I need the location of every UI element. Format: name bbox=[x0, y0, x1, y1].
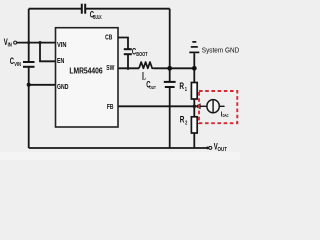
wire inductor to R1 node bbox=[154, 67, 196, 69]
terminal VOUT bbox=[209, 146, 212, 149]
wire GND pin bbox=[29, 84, 56, 86]
label VOUT terminal bbox=[214, 141, 227, 153]
svg-text:GND: GND bbox=[57, 84, 69, 92]
svg-text:CB: CB bbox=[105, 35, 113, 42]
ground System GND bbox=[189, 42, 199, 53]
wire EN branch bbox=[40, 43, 56, 62]
wire bottom rail bbox=[29, 147, 209, 149]
wire CVIN branch lower to bottom rail bbox=[28, 67, 30, 148]
wire COUT branch lower to bottom rail bbox=[169, 88, 171, 148]
label IDAC bbox=[221, 111, 229, 119]
wire R2 bottom lead bbox=[193, 133, 195, 148]
label CVIN bbox=[10, 56, 21, 67]
svg-text:R: R bbox=[179, 81, 184, 91]
node VIN/CVIN junction bbox=[27, 41, 30, 44]
capacitor CBULK bbox=[82, 4, 85, 14]
wire SW to inductor bbox=[118, 67, 139, 69]
capacitor CVIN bbox=[23, 62, 35, 67]
wire CBOOT to SW bbox=[127, 55, 129, 69]
svg-text:OUT: OUT bbox=[149, 84, 156, 90]
wire COUT branch upper bbox=[169, 68, 171, 81]
label R1 bbox=[179, 81, 187, 92]
resistor R2 bbox=[191, 117, 197, 133]
current source IDAC bbox=[195, 100, 225, 113]
svg-text:BULK: BULK bbox=[93, 14, 101, 20]
wire left vertical top rail to VIN wire bbox=[28, 9, 30, 43]
wire R2 top lead bbox=[193, 106, 195, 117]
terminal VIN bbox=[14, 41, 17, 44]
label CBOOT bbox=[132, 46, 148, 57]
label CBULK bbox=[90, 9, 102, 20]
svg-text:EN: EN bbox=[57, 58, 65, 66]
svg-text:System GND: System GND bbox=[202, 47, 240, 54]
node VOUT rail dot bbox=[206, 147, 209, 150]
svg-text:VIN: VIN bbox=[57, 42, 67, 50]
svg-text:FB: FB bbox=[107, 105, 114, 112]
wire top rail right bbox=[85, 8, 169, 10]
wire R1 bottom lead bbox=[193, 99, 195, 106]
label VIN terminal bbox=[4, 37, 13, 48]
svg-text:R: R bbox=[180, 115, 185, 125]
node R1/system-gnd junction bbox=[192, 66, 197, 71]
wire CB to CBOOT bbox=[118, 38, 128, 49]
svg-text:LMR54406: LMR54406 bbox=[69, 66, 102, 76]
svg-text:OUT: OUT bbox=[218, 147, 228, 153]
wire system gnd stub bbox=[193, 53, 195, 68]
node CBOOT/SW junction bbox=[126, 67, 129, 70]
resistor R1 bbox=[191, 83, 197, 100]
node VIN/EN junction bbox=[38, 41, 41, 44]
label COUT bbox=[146, 79, 156, 90]
wire R1 top lead bbox=[193, 68, 195, 82]
wire right vertical from top rail to SW node bbox=[169, 9, 171, 69]
wire VIN input bbox=[17, 42, 56, 44]
node GND junction bbox=[27, 83, 31, 87]
capacitor COUT bbox=[164, 82, 176, 87]
capacitor CBOOT bbox=[124, 49, 132, 54]
svg-text:BOOT: BOOT bbox=[136, 52, 147, 58]
node FB junction bbox=[193, 105, 197, 109]
red dashed highlight box bbox=[199, 91, 237, 123]
label R2 bbox=[180, 115, 188, 126]
wire FB bbox=[118, 105, 194, 107]
svg-text:IN: IN bbox=[8, 42, 13, 47]
node SW/COUT junction bbox=[167, 66, 172, 71]
wire CVIN branch upper bbox=[28, 43, 30, 62]
svg-text:SW: SW bbox=[106, 65, 114, 72]
wire top rail left bbox=[29, 8, 82, 10]
inductor L bbox=[139, 62, 154, 68]
svg-text:DAC: DAC bbox=[223, 114, 229, 119]
svg-text:VIN: VIN bbox=[14, 61, 21, 67]
IC U1 LMR54406 box bbox=[56, 28, 119, 127]
